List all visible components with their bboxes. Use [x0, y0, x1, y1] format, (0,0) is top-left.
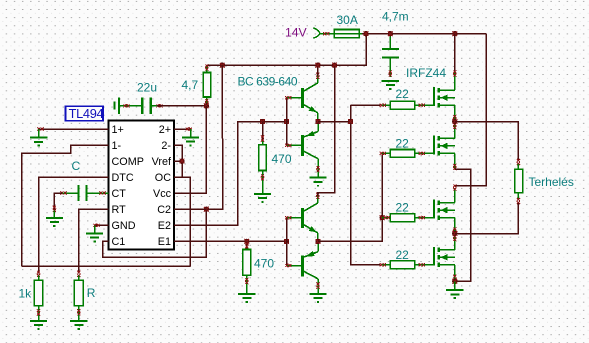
- transistor Q4 BC640: [287, 241, 319, 293]
- svg-text:E1: E1: [158, 236, 171, 248]
- wire M3 source to node2: [454, 218, 456, 234]
- svg-text:1k: 1k: [19, 287, 33, 301]
- node M1 drain rail: [452, 31, 457, 36]
- svg-text:1-: 1-: [112, 140, 122, 152]
- wire M4 source to ground node: [454, 265, 456, 282]
- svg-text:22: 22: [396, 248, 410, 262]
- wire right rail down to M3 drain: [455, 34, 486, 186]
- svg-text:E2: E2: [158, 220, 171, 232]
- wire E2 to upper driver bases: [174, 122, 287, 226]
- pin marks Q1: [285, 96, 291, 99]
- pin mark GND: [93, 224, 99, 227]
- wire Vref stub: [174, 160, 182, 162]
- ground at 2+: [190, 129, 192, 137]
- wire upper output: [318, 121, 351, 123]
- pin marks 22u: [123, 104, 129, 107]
- svg-text:22: 22: [396, 137, 410, 151]
- svg-text:Terhelés: Terhelés: [529, 175, 574, 189]
- pin marks R4: [261, 135, 264, 141]
- svg-text:470: 470: [254, 257, 274, 271]
- load Terhelés: [515, 164, 523, 199]
- pin mark 1k bottom: [38, 306, 40, 321]
- pin mark R3 top: [206, 65, 208, 72]
- svg-text:TL494: TL494: [69, 106, 104, 121]
- wire M4 drain to node2: [454, 234, 456, 250]
- wire M1 source to node1: [454, 105, 456, 121]
- svg-text:IRFZ44: IRFZ44: [406, 66, 446, 80]
- wire top rail 14V: [366, 33, 486, 35]
- wire bottom feedback rail: [22, 265, 191, 267]
- wire E1 to lower driver bases: [174, 240, 287, 242]
- ground at 1+: [38, 129, 40, 138]
- wire 22u to Vcc node: [157, 105, 206, 107]
- svg-text:C1: C1: [112, 236, 126, 248]
- ground below R: [70, 321, 87, 329]
- svg-text:22: 22: [396, 87, 410, 101]
- ground below M4: [454, 281, 456, 290]
- wire load bottom to node2: [455, 203, 519, 234]
- svg-text:OC: OC: [155, 172, 171, 184]
- pin marks Q4: [285, 264, 291, 267]
- svg-text:RT: RT: [112, 204, 127, 216]
- node Q3 collector rail: [332, 62, 337, 67]
- node 470a tap: [260, 119, 265, 124]
- svg-text:R: R: [87, 286, 96, 300]
- wire Vcc riser: [174, 106, 206, 193]
- transistor Q1 BC639: [287, 76, 318, 122]
- MOSFET M3 IRFZ44: [434, 200, 455, 220]
- ground below R4: [254, 194, 271, 202]
- svg-text:22u: 22u: [137, 81, 157, 95]
- ground below Q2: [309, 178, 326, 186]
- node Q1 collector rail: [315, 62, 320, 67]
- svg-text:COMP: COMP: [112, 156, 144, 168]
- resistor R3 4,7: [203, 73, 211, 98]
- pin mark C3 bottom: [389, 70, 392, 76]
- node1 half-bridge left: [452, 119, 457, 124]
- U1 pin labels left: [112, 124, 144, 248]
- svg-text:Vcc: Vcc: [153, 188, 172, 200]
- pin marks timing cap: [60, 191, 66, 194]
- node lower bases: [284, 239, 289, 244]
- svg-text:CT: CT: [112, 188, 127, 200]
- node lower emitters: [315, 239, 320, 244]
- svg-text:C2: C2: [157, 204, 171, 216]
- svg-text:BC 639-640: BC 639-640: [238, 75, 298, 89]
- ground below Q4: [309, 294, 326, 302]
- svg-text:C: C: [72, 159, 81, 173]
- wire fuse node down to driver rail: [222, 34, 366, 65]
- wire V+ riser to C2 row: [206, 65, 222, 209]
- transistor Q2 BC640: [287, 122, 319, 178]
- pin mark R top: [77, 271, 80, 277]
- wire OC to feedback bottom rail: [174, 177, 190, 266]
- node C3 top: [388, 31, 393, 36]
- pin mark 1+: [37, 127, 43, 130]
- pin mark 1k top: [37, 271, 40, 277]
- resistor R4 470 upper: [259, 122, 267, 194]
- pin mark R bottom: [78, 306, 80, 321]
- wire node1 to load top: [455, 122, 519, 161]
- ground at GND pin: [94, 225, 96, 233]
- wire GND pin stub: [96, 224, 109, 226]
- wire upper output to gate resistors M1/M4: [351, 105, 381, 265]
- svg-text:2-: 2-: [161, 140, 171, 152]
- resistor R6 22: [381, 104, 391, 106]
- wire RT down to R: [79, 209, 109, 274]
- wire M3 drain stub: [454, 188, 456, 203]
- node M4 source ground: [452, 279, 457, 284]
- svg-text:DTC: DTC: [112, 172, 134, 184]
- pin mark R3 bottom: [206, 97, 208, 106]
- node Vref: [179, 159, 184, 164]
- svg-text:4,7m: 4,7m: [382, 10, 409, 24]
- wire lower base link: [286, 218, 288, 266]
- ground below C3: [382, 81, 399, 89]
- node C2/C1/V+: [204, 207, 209, 212]
- node 470b tap: [244, 239, 249, 244]
- wire lower output: [318, 218, 382, 242]
- ground below R5: [238, 294, 255, 302]
- pin marks Q3: [285, 216, 291, 219]
- node fuse output: [363, 31, 368, 36]
- wire Q1 collector to rail: [317, 65, 319, 76]
- wire Q3 collector to rail: [318, 65, 335, 196]
- capacitor C1 22u electrolytic: [115, 97, 157, 114]
- wire lower output riser to gates M2/M3: [381, 153, 383, 241]
- svg-text:Vref: Vref: [152, 156, 172, 168]
- MOSFET M2 IRFZ44: [434, 135, 455, 155]
- node Vcc/22u/4,7: [204, 103, 209, 108]
- wire upper base link: [286, 98, 288, 146]
- connector J1 (supply input): [313, 28, 319, 38]
- capacitor C3 4,7m: [382, 34, 399, 77]
- transistor Q3 BC639: [287, 196, 318, 242]
- wire fuse to node: [362, 33, 366, 35]
- svg-text:470: 470: [272, 152, 292, 166]
- wire C2 stub: [174, 208, 206, 210]
- resistor R8 22: [382, 217, 390, 219]
- resistor R7 22: [382, 152, 390, 154]
- wire M2 source to ground bus: [454, 153, 456, 169]
- op-amp U1 TL494 body: [109, 121, 175, 250]
- svg-text:2+: 2+: [159, 124, 171, 136]
- ground below 1k: [30, 321, 47, 329]
- wire connector to fuse: [320, 33, 335, 35]
- pin marks Q2: [285, 144, 291, 147]
- node upper bases: [284, 119, 289, 124]
- wire 1+ to ground: [39, 128, 108, 130]
- label TL494: [66, 106, 104, 121]
- node upper emitters: [315, 119, 320, 124]
- wire 2+ to ground: [174, 128, 190, 130]
- resistor R timing: [74, 280, 83, 305]
- svg-text:22: 22: [396, 200, 410, 214]
- MOSFET M4 IRFZ44: [434, 247, 455, 267]
- svg-text:30A: 30A: [337, 13, 358, 27]
- node driver rail left: [220, 62, 225, 67]
- wire driver rail to 4,7 resistor top: [207, 64, 223, 66]
- resistor R5 470 lower: [243, 241, 251, 293]
- pin marks R5: [245, 242, 248, 248]
- resistor R9 22: [381, 264, 391, 266]
- wire M2 drain to node1: [454, 122, 456, 139]
- node gate drive 1: [348, 119, 353, 124]
- svg-text:GND: GND: [112, 220, 136, 232]
- ground at timing cap: [53, 211, 55, 218]
- wire C1 under IC to V+ riser: [103, 209, 207, 257]
- wire M1 drain to rail: [454, 34, 456, 72]
- svg-text:1+: 1+: [112, 124, 124, 136]
- fuse F1: [334, 30, 359, 38]
- node gate drive 2: [380, 215, 385, 220]
- pin mark connector-fuse: [323, 32, 329, 35]
- svg-text:4,7: 4,7: [182, 78, 199, 92]
- wire DTC down to 1k: [39, 177, 109, 274]
- wire 1- feedback: [22, 145, 109, 266]
- U1 pin labels right: [152, 124, 172, 248]
- svg-text:14V: 14V: [285, 26, 308, 40]
- capacitor C2 timing: [62, 185, 109, 201]
- wire 2- down to Vref: [174, 145, 182, 177]
- resistor 1k: [34, 280, 43, 305]
- MOSFET M1 IRFZ44: [434, 87, 455, 107]
- node2 half-bridge right: [452, 231, 457, 236]
- wire cap left to ground: [54, 193, 62, 211]
